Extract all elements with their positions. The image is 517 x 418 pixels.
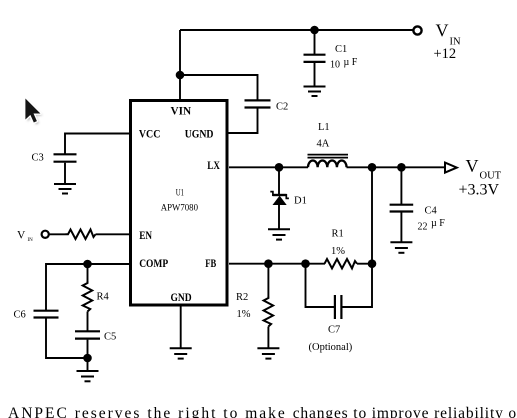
wire top rail VIN to input terminal [180,29,413,31]
svg-text:OUT: OUT [480,171,502,182]
capacitor C2 [245,100,289,112]
wire EN terminal to resistor [49,233,66,235]
capacitor C7 (optional) [309,295,353,353]
node label V_OUT +3.3V [459,156,502,199]
svg-text:VCC: VCC [139,126,161,140]
svg-text:IN: IN [28,238,34,243]
svg-text:R2: R2 [236,292,248,303]
wire R4 to C5 [87,312,89,332]
ground under C1 [304,87,326,97]
ground under D1 [268,229,290,239]
ground under C5/C6 [77,371,99,381]
svg-text:4A: 4A [317,139,330,150]
wire C3 bottom lead [64,163,66,185]
wire C7 right branch [342,264,372,307]
svg-text:+12: +12 [434,46,457,62]
wire LX rail (left of L1) [229,166,308,168]
wire resistor to EN pin [96,233,130,235]
wire VIN vertical drop to U1 VIN pin [179,30,181,100]
capacitor C3 [32,153,77,164]
svg-text:(Optional): (Optional) [309,342,353,353]
svg-text:C1: C1 [335,44,347,55]
wire R2 top lead [267,264,269,297]
junction input rail / C1 [310,26,319,35]
svg-text:C3: C3 [32,153,44,164]
wire C2 bottom to UGND pin [228,109,258,134]
junction FB / R2 [264,259,273,268]
svg-text:+3.3V: +3.3V [459,182,500,199]
svg-text:µ F: µ F [431,218,445,229]
wire FB rail [229,263,325,265]
wire branch to C2 [180,75,258,100]
capacitor C5 [75,331,116,342]
svg-text:EN: EN [139,228,152,242]
svg-text:UGND: UGND [185,126,214,140]
svg-text:ANPEC reserves the right to ma: ANPEC reserves the right to make changes… [8,405,517,418]
wire R2 bottom lead [267,327,269,349]
svg-text:D1: D1 [294,196,307,207]
resistor R4 [83,281,110,312]
ground under R2 [257,348,279,358]
ground under C4 [390,242,412,253]
terminal VIN open circle [413,26,421,34]
svg-text:C5: C5 [104,332,116,343]
svg-text:V: V [436,21,449,41]
junction FB / C7 left [301,259,310,268]
svg-text:LX: LX [207,158,220,172]
ground under C3 [54,184,76,194]
inductor L1 4A [308,122,349,167]
wire R1 to tap junction [357,263,372,265]
terminal VOUT triangle [445,163,457,173]
wire C1 top lead [314,30,316,54]
wire junction to ground [87,358,89,372]
svg-text:VIN: VIN [171,103,192,117]
svg-text:L1: L1 [318,122,330,133]
wire C1 bottom lead [314,63,316,87]
junction Vout / feedback tap [368,163,377,172]
wire COMP pin rail [46,264,129,310]
wire VCC pin to C3 [65,134,129,155]
junction FB tap / C7 right [368,259,377,268]
svg-text:GND: GND [171,290,192,304]
svg-text:FB: FB [205,256,216,270]
wire C7 left branch [306,264,335,307]
svg-text:R1: R1 [332,229,344,240]
svg-text:COMP: COMP [139,256,168,270]
wire C4 bottom lead [400,213,402,243]
wire GND pin lead [180,306,182,349]
svg-text:V: V [17,230,26,242]
wire LX rail (right of L1) [347,166,446,168]
wire D1 bottom lead [278,205,280,230]
mouse cursor [25,99,42,125]
wire C6 bottom to junction [46,319,88,359]
resistor R2 1% [236,292,273,327]
wire C5 bottom lead [87,340,89,358]
terminal EN input open circle [42,231,49,238]
svg-text:C2: C2 [276,102,288,113]
svg-text:1%: 1% [237,309,251,320]
capacitor C4 22uF [390,205,446,233]
svg-text:C6: C6 [14,310,26,321]
wire D1 top lead [278,167,280,195]
ground at GND pin [170,348,192,358]
svg-text:C7: C7 [328,325,340,336]
node label V_in (EN input) [17,230,33,244]
svg-text:APW7080: APW7080 [161,203,199,213]
svg-text:10: 10 [330,60,340,71]
svg-text:U1: U1 [176,188,184,198]
resistor EN series (unlabeled) [66,230,96,240]
svg-text:R4: R4 [97,292,110,303]
junction C5/C6 ground node [83,354,92,363]
wire R4 top lead [87,264,89,281]
junction VIN node at U1 [176,71,185,80]
svg-text:C4: C4 [425,206,438,217]
junction LX / D1 [275,163,284,172]
op-amp U1 APW7080 IC body [131,101,228,306]
wire feedback tap vertical [371,167,373,263]
capacitor C6 [14,310,59,321]
svg-text:1%: 1% [331,246,345,257]
capacitor C1 10uF [304,44,358,71]
resistor R1 1% [325,229,358,269]
node label V_IN +12 [434,21,461,63]
svg-text:V: V [466,156,479,176]
svg-text:22: 22 [418,222,428,233]
wire C4 top lead [400,167,402,205]
diode D1 (schottky) [270,192,307,207]
junction Vout / C4 [397,163,406,172]
svg-text:µ F: µ F [344,57,358,68]
junction COMP / R4 top [83,260,92,269]
